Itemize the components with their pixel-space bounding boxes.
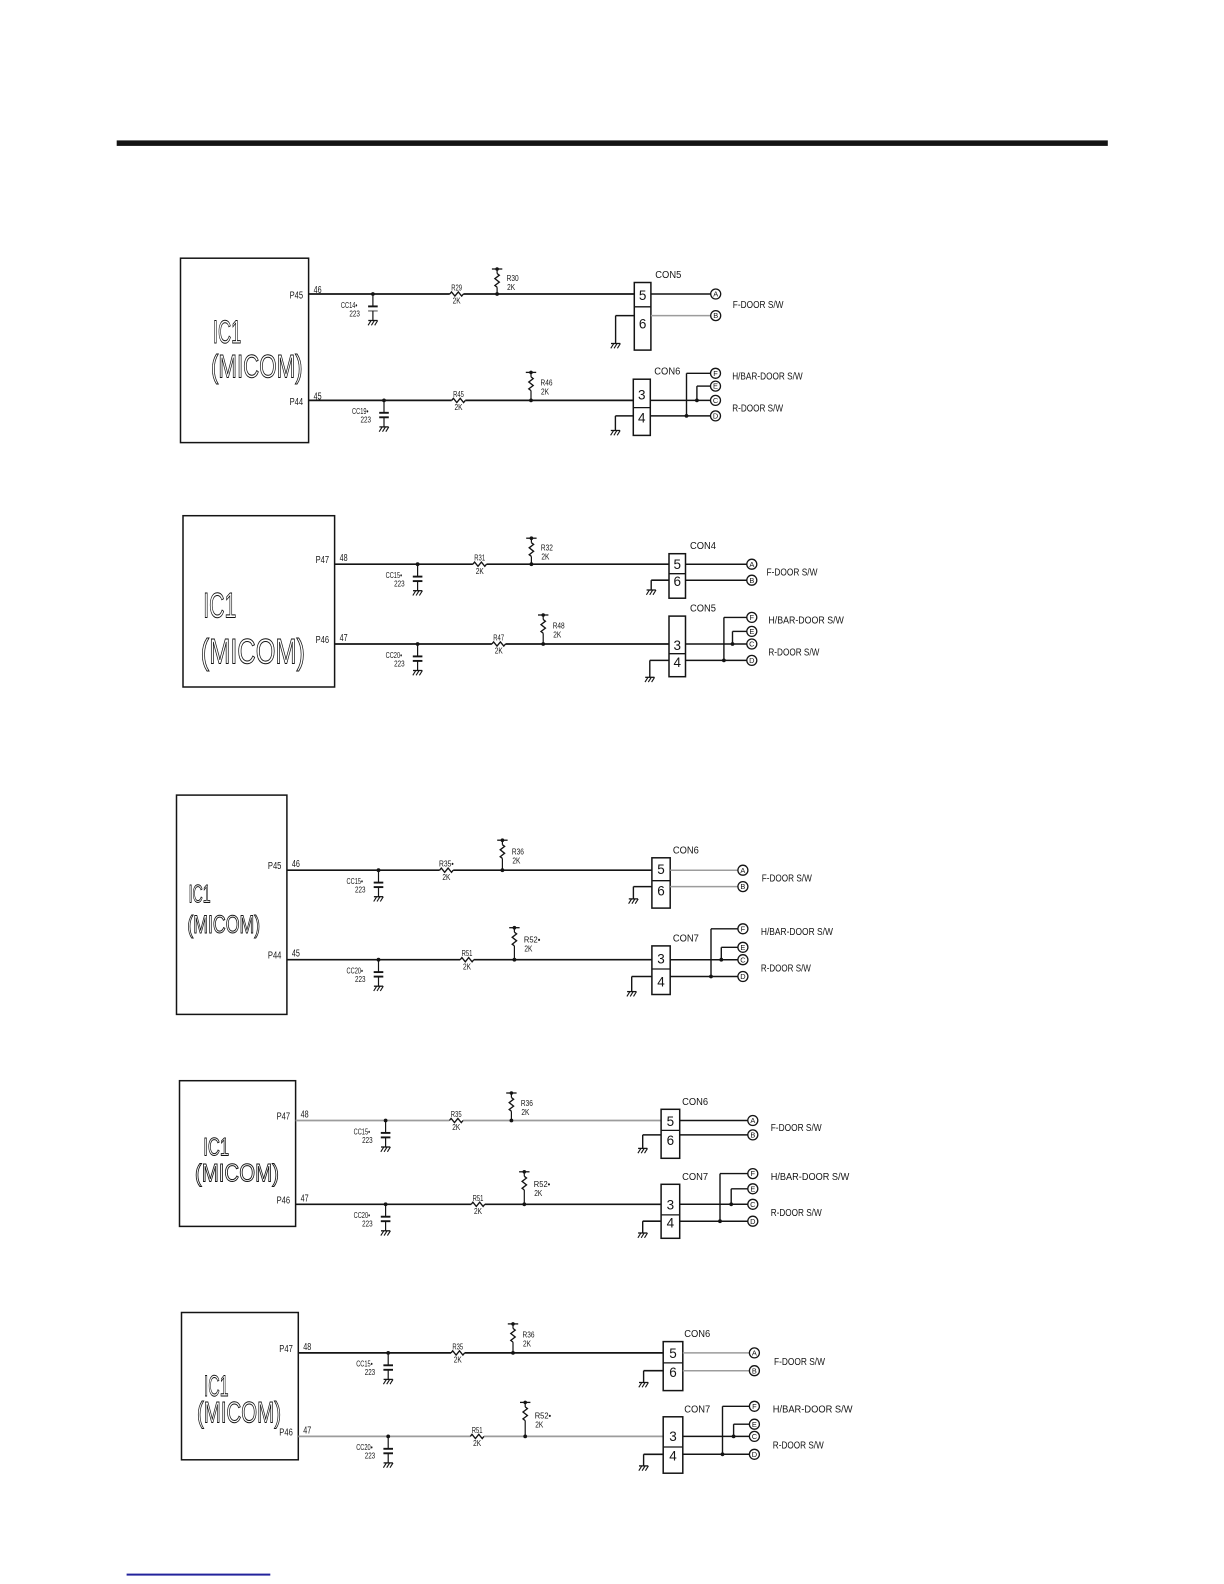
wire CON7 pin 3 to terminal C bbox=[680, 1203, 748, 1205]
junction bbox=[384, 1119, 388, 1123]
svg-text:R35: R35 bbox=[452, 1341, 463, 1351]
resistor R48 bbox=[538, 613, 565, 644]
wire terminal E to pin 3 net bbox=[721, 947, 738, 959]
junction bbox=[495, 292, 499, 296]
svg-text:E: E bbox=[749, 627, 754, 636]
wire connector to ground bbox=[615, 416, 633, 431]
svg-text:48: 48 bbox=[301, 1110, 309, 1121]
wire connector to ground bbox=[616, 316, 635, 344]
svg-text:2K: 2K bbox=[507, 282, 515, 292]
terminal F bbox=[747, 612, 757, 622]
IC IC1 (MICOM) block 4 box bbox=[180, 1081, 296, 1227]
junction bbox=[721, 1452, 725, 1456]
svg-text:223: 223 bbox=[365, 1367, 376, 1377]
svg-text:P45: P45 bbox=[290, 291, 304, 302]
svg-text:D: D bbox=[749, 656, 754, 665]
svg-text:R47: R47 bbox=[493, 633, 504, 643]
wire P46 to CON7 pin 3 bbox=[298, 1435, 663, 1437]
ground bbox=[413, 671, 423, 676]
terminal C bbox=[749, 1431, 759, 1441]
ground bbox=[639, 1383, 649, 1388]
terminal D bbox=[738, 972, 748, 982]
svg-text:6: 6 bbox=[669, 1365, 677, 1380]
svg-text:2K: 2K bbox=[523, 1339, 531, 1349]
wire P47 to CON6 pin 5 bbox=[298, 1352, 663, 1354]
svg-text:3: 3 bbox=[638, 387, 646, 402]
junction bbox=[530, 562, 534, 566]
svg-text:CON6: CON6 bbox=[682, 1097, 709, 1108]
svg-text:6: 6 bbox=[657, 883, 665, 898]
capacitor CC15 bbox=[354, 1121, 391, 1147]
junction bbox=[695, 399, 699, 403]
resistor R35 bbox=[451, 1341, 465, 1364]
svg-text:223: 223 bbox=[394, 658, 405, 668]
svg-text:223: 223 bbox=[362, 1219, 373, 1229]
ground bbox=[383, 1379, 393, 1384]
svg-text:4: 4 bbox=[669, 1448, 677, 1463]
wire CON5 pin 6 to terminal B bbox=[651, 315, 711, 317]
svg-text:CON7: CON7 bbox=[684, 1404, 710, 1415]
resistor R45 bbox=[452, 389, 466, 412]
terminal B bbox=[738, 882, 748, 892]
wire connector to ground bbox=[633, 887, 652, 899]
capacitor CC20 bbox=[347, 960, 384, 986]
junction bbox=[523, 1435, 527, 1439]
junction bbox=[731, 642, 735, 646]
ground bbox=[638, 1233, 648, 1238]
connector CON6 bbox=[661, 1097, 709, 1159]
svg-text:2K: 2K bbox=[455, 402, 463, 412]
svg-text:CON4: CON4 bbox=[690, 541, 717, 552]
svg-text:P44: P44 bbox=[290, 397, 304, 408]
wire connector to ground bbox=[650, 660, 669, 677]
wire CON7 pin 4 to terminal D bbox=[670, 976, 738, 978]
svg-text:48: 48 bbox=[303, 1342, 311, 1353]
resistor R51 bbox=[471, 1193, 485, 1216]
junction bbox=[386, 1435, 390, 1439]
junction bbox=[510, 1119, 514, 1123]
ground bbox=[381, 1147, 391, 1152]
junction bbox=[386, 1351, 390, 1355]
resistor R47 bbox=[492, 633, 506, 656]
svg-text:47: 47 bbox=[303, 1425, 311, 1436]
svg-text:2K: 2K bbox=[442, 872, 450, 882]
connector CON7 bbox=[652, 933, 699, 994]
svg-text:F: F bbox=[741, 924, 746, 933]
svg-text:223: 223 bbox=[355, 974, 366, 984]
svg-text:5: 5 bbox=[639, 288, 647, 303]
wire CON5 pin 5 to terminal A bbox=[651, 293, 711, 295]
wire connector to ground bbox=[643, 1221, 661, 1233]
wire CON6 pin 3 to terminal C bbox=[650, 399, 710, 401]
svg-text:R-DOOR S/W: R-DOOR S/W bbox=[732, 403, 784, 414]
svg-text:2K: 2K bbox=[474, 1206, 482, 1216]
svg-text:2K: 2K bbox=[473, 1438, 481, 1448]
resistor R36 bbox=[497, 838, 524, 870]
svg-text:R-DOOR S/W: R-DOOR S/W bbox=[773, 1441, 825, 1452]
ground bbox=[383, 1463, 393, 1468]
svg-text:F-DOOR S/W: F-DOOR S/W bbox=[767, 567, 819, 578]
svg-text:E: E bbox=[752, 1420, 757, 1429]
capacitor CC15 bbox=[347, 870, 384, 896]
capacitor CC20 bbox=[354, 1204, 391, 1230]
svg-text:R51: R51 bbox=[473, 1193, 484, 1203]
svg-text:2K: 2K bbox=[521, 1107, 529, 1117]
junction bbox=[377, 958, 381, 962]
IC IC1 (MICOM) block 3 box bbox=[177, 795, 287, 1014]
wire P46 to CON5 pin 3 bbox=[335, 643, 669, 645]
svg-text:A: A bbox=[749, 560, 754, 569]
svg-text:C: C bbox=[749, 640, 755, 649]
svg-text:3: 3 bbox=[667, 1197, 675, 1212]
svg-text:P46: P46 bbox=[316, 635, 330, 646]
svg-text:223: 223 bbox=[349, 308, 360, 318]
svg-text:P47: P47 bbox=[277, 1112, 291, 1123]
wire connector to ground bbox=[632, 977, 652, 992]
svg-text:F-DOOR S/W: F-DOOR S/W bbox=[762, 874, 813, 885]
terminal B bbox=[711, 311, 721, 321]
svg-text:C: C bbox=[752, 1432, 758, 1441]
svg-text:2K: 2K bbox=[452, 1122, 460, 1132]
svg-text:F-DOOR S/W: F-DOOR S/W bbox=[774, 1357, 826, 1368]
terminal E bbox=[738, 942, 748, 952]
svg-text:5: 5 bbox=[667, 1114, 675, 1129]
svg-text:2K: 2K bbox=[541, 387, 549, 397]
svg-text:6: 6 bbox=[639, 316, 647, 331]
svg-text:F-DOOR S/W: F-DOOR S/W bbox=[733, 300, 784, 311]
terminal E bbox=[711, 381, 721, 391]
svg-text:P47: P47 bbox=[279, 1344, 293, 1355]
svg-text:H/BAR-DOOR S/W: H/BAR-DOOR S/W bbox=[761, 927, 834, 938]
capacitor CC20 bbox=[356, 1436, 393, 1462]
wire CON6 pin 4 to terminal D bbox=[650, 415, 710, 417]
svg-text:P46: P46 bbox=[279, 1427, 293, 1438]
connector CON5 bbox=[669, 604, 717, 677]
svg-text:R35•: R35• bbox=[439, 859, 454, 869]
ground bbox=[413, 591, 423, 596]
svg-text:B: B bbox=[740, 882, 745, 891]
svg-text:223: 223 bbox=[361, 415, 372, 425]
resistor R51 bbox=[460, 948, 474, 971]
ground bbox=[638, 1148, 648, 1153]
svg-text:A: A bbox=[752, 1349, 757, 1358]
svg-text:CON7: CON7 bbox=[682, 1172, 708, 1183]
svg-text:R31: R31 bbox=[474, 553, 485, 563]
terminal E bbox=[748, 1184, 758, 1194]
terminal A bbox=[738, 865, 748, 875]
svg-text:H/BAR-DOOR S/W: H/BAR-DOOR S/W bbox=[768, 616, 844, 627]
svg-text:A: A bbox=[713, 290, 718, 299]
resistor R31 bbox=[473, 553, 487, 576]
svg-text:F: F bbox=[752, 1402, 757, 1411]
ground bbox=[374, 986, 384, 991]
wire CON4 pin 5 to terminal A bbox=[686, 563, 747, 565]
svg-text:CON6: CON6 bbox=[673, 845, 700, 856]
junction bbox=[541, 642, 545, 646]
svg-text:A: A bbox=[750, 1116, 755, 1125]
svg-text:CON7: CON7 bbox=[673, 933, 699, 944]
svg-text:2K: 2K bbox=[535, 1419, 543, 1429]
wire terminal F to pin 4 net bbox=[711, 929, 738, 977]
IC IC1 (MICOM) block 2 box bbox=[183, 516, 335, 687]
svg-text:C: C bbox=[740, 955, 746, 964]
svg-text:R51: R51 bbox=[462, 948, 473, 958]
svg-text:B: B bbox=[752, 1366, 757, 1375]
terminal C bbox=[748, 1199, 758, 1209]
junction bbox=[522, 1202, 526, 1206]
IC IC1 (MICOM) block 1 box bbox=[181, 258, 309, 442]
svg-text:A: A bbox=[740, 866, 745, 875]
junction bbox=[382, 399, 386, 403]
resistor R29 bbox=[450, 283, 464, 306]
svg-text:223: 223 bbox=[362, 1135, 373, 1145]
svg-text:B: B bbox=[749, 576, 754, 585]
svg-text:R35: R35 bbox=[451, 1109, 462, 1119]
junction bbox=[722, 659, 726, 663]
svg-text:F: F bbox=[750, 613, 755, 622]
wire connector to ground bbox=[644, 1371, 664, 1383]
wire terminal E to pin 3 net bbox=[734, 1424, 750, 1436]
junction bbox=[685, 414, 689, 418]
svg-text:E: E bbox=[750, 1184, 755, 1193]
junction bbox=[718, 1219, 722, 1223]
svg-text:2K: 2K bbox=[476, 566, 484, 576]
resistor R35 bbox=[439, 859, 454, 882]
svg-text:R-DOOR S/W: R-DOOR S/W bbox=[761, 963, 812, 974]
wire P44 to CON6 pin 3 bbox=[309, 399, 634, 401]
terminal E bbox=[749, 1419, 759, 1429]
wire CON7 pin 3 to terminal C bbox=[683, 1435, 750, 1437]
svg-text:IC1: IC1 bbox=[203, 1133, 229, 1161]
svg-text:3: 3 bbox=[657, 951, 665, 966]
svg-text:2K: 2K bbox=[463, 961, 471, 971]
svg-text:47: 47 bbox=[301, 1193, 309, 1204]
header rule bbox=[117, 140, 1108, 146]
wire CON6 pin 6 to terminal B bbox=[680, 1134, 748, 1136]
resistor R30 bbox=[492, 267, 519, 294]
resistor R46 bbox=[526, 371, 553, 401]
wire CON5 pin 4 to terminal D bbox=[686, 659, 747, 661]
resistor R36 bbox=[506, 1091, 533, 1120]
ground bbox=[629, 899, 639, 904]
terminal D bbox=[747, 655, 757, 665]
svg-text:IC1: IC1 bbox=[189, 881, 211, 909]
ground bbox=[368, 321, 378, 326]
ground bbox=[645, 677, 655, 682]
wire CON6 pin 6 to terminal B bbox=[683, 1370, 750, 1372]
svg-text:2K: 2K bbox=[534, 1188, 542, 1198]
svg-text:R51: R51 bbox=[472, 1425, 483, 1435]
terminal C bbox=[711, 395, 721, 405]
svg-text:48: 48 bbox=[340, 553, 348, 564]
junction bbox=[371, 292, 375, 296]
junction bbox=[416, 642, 420, 646]
svg-text:CON6: CON6 bbox=[684, 1329, 711, 1340]
wire terminal F to pin 4 net bbox=[720, 1174, 748, 1222]
wire CON6 pin 5 to terminal A bbox=[683, 1352, 750, 1354]
ground bbox=[646, 590, 656, 595]
svg-text:F: F bbox=[713, 369, 718, 378]
capacitor CC15 bbox=[386, 564, 423, 590]
resistor R51 bbox=[470, 1425, 484, 1448]
svg-text:47: 47 bbox=[340, 633, 348, 644]
wire P46 to CON7 pin 3 bbox=[296, 1203, 661, 1205]
resistor R32 bbox=[526, 536, 553, 564]
svg-text:IC1: IC1 bbox=[213, 314, 241, 350]
svg-text:2K: 2K bbox=[541, 551, 549, 561]
junction bbox=[529, 399, 533, 403]
svg-text:(MICOM): (MICOM) bbox=[201, 633, 305, 672]
resistor R36 bbox=[508, 1322, 535, 1353]
wire terminal F to pin 4 net bbox=[724, 617, 747, 660]
connector CON6 bbox=[652, 845, 700, 908]
svg-text:223: 223 bbox=[394, 579, 405, 589]
terminal B bbox=[748, 1130, 758, 1140]
ground bbox=[611, 431, 621, 436]
terminal E bbox=[747, 626, 757, 636]
svg-text:(MICOM): (MICOM) bbox=[187, 911, 260, 939]
svg-text:3: 3 bbox=[673, 638, 681, 653]
wire CON7 pin 3 to terminal C bbox=[670, 959, 738, 961]
footer link rule bbox=[127, 1574, 271, 1576]
svg-text:P47: P47 bbox=[316, 555, 330, 566]
wire CON6 pin 5 to terminal A bbox=[680, 1120, 748, 1122]
junction bbox=[729, 1202, 733, 1206]
wire CON6 pin 6 to terminal B bbox=[670, 886, 738, 888]
svg-text:CON6: CON6 bbox=[654, 367, 681, 378]
svg-text:R-DOOR S/W: R-DOOR S/W bbox=[771, 1208, 823, 1219]
junction bbox=[511, 1351, 515, 1355]
connector CON7 bbox=[663, 1404, 710, 1473]
ground bbox=[381, 1231, 391, 1236]
svg-text:3: 3 bbox=[669, 1429, 677, 1444]
svg-text:F: F bbox=[751, 1169, 756, 1178]
svg-text:P46: P46 bbox=[277, 1195, 291, 1206]
ground bbox=[374, 897, 384, 902]
svg-text:H/BAR-DOOR S/W: H/BAR-DOOR S/W bbox=[732, 372, 803, 383]
svg-text:F-DOOR S/W: F-DOOR S/W bbox=[771, 1123, 823, 1134]
terminal F bbox=[748, 1169, 758, 1179]
svg-text:C: C bbox=[750, 1200, 756, 1209]
svg-text:C: C bbox=[713, 396, 719, 405]
terminal C bbox=[747, 639, 757, 649]
svg-text:5: 5 bbox=[673, 557, 681, 572]
terminal D bbox=[711, 411, 721, 421]
capacitor CC14 bbox=[341, 294, 378, 320]
wire terminal E to pin 3 net bbox=[731, 1189, 748, 1205]
svg-text:5: 5 bbox=[669, 1346, 677, 1361]
wire P47 to CON6 pin 5 bbox=[296, 1120, 661, 1122]
svg-text:2K: 2K bbox=[453, 296, 461, 306]
terminal B bbox=[747, 575, 757, 585]
ground bbox=[639, 1466, 649, 1471]
svg-text:6: 6 bbox=[673, 574, 681, 589]
wire CON5 pin 3 to terminal C bbox=[686, 643, 747, 645]
svg-text:2K: 2K bbox=[553, 630, 561, 640]
terminal C bbox=[738, 955, 748, 965]
wire CON7 pin 4 to terminal D bbox=[683, 1453, 750, 1455]
wire terminal E to pin 3 net bbox=[733, 631, 747, 644]
connector CON4 bbox=[669, 541, 717, 598]
capacitor CC15 bbox=[356, 1353, 393, 1379]
svg-text:H/BAR-DOOR S/W: H/BAR-DOOR S/W bbox=[773, 1405, 853, 1416]
ground bbox=[627, 992, 637, 997]
capacitor CC20 bbox=[386, 644, 423, 670]
svg-text:4: 4 bbox=[667, 1215, 675, 1230]
svg-text:5: 5 bbox=[657, 862, 665, 877]
svg-text:(MICOM): (MICOM) bbox=[195, 1159, 279, 1187]
svg-text:6: 6 bbox=[667, 1133, 675, 1148]
svg-text:P44: P44 bbox=[268, 951, 282, 962]
svg-text:IC1: IC1 bbox=[203, 587, 236, 626]
svg-text:R45: R45 bbox=[453, 389, 464, 399]
wire P47 to CON4 pin 5 bbox=[335, 563, 669, 565]
resistor R35 bbox=[449, 1109, 463, 1132]
svg-text:223: 223 bbox=[355, 885, 366, 895]
resistor R52 bbox=[520, 1401, 551, 1437]
svg-text:2K: 2K bbox=[454, 1355, 462, 1365]
wire connector to ground bbox=[651, 580, 669, 590]
svg-text:(MICOM): (MICOM) bbox=[211, 348, 303, 384]
svg-text:2K: 2K bbox=[524, 944, 532, 954]
terminal A bbox=[747, 559, 757, 569]
svg-text:CON5: CON5 bbox=[655, 270, 682, 281]
terminal F bbox=[749, 1401, 759, 1411]
svg-text:4: 4 bbox=[657, 974, 665, 989]
svg-text:D: D bbox=[713, 412, 718, 421]
terminal D bbox=[749, 1449, 759, 1459]
terminal A bbox=[749, 1348, 759, 1358]
junction bbox=[377, 868, 381, 872]
svg-text:R29: R29 bbox=[451, 283, 462, 293]
svg-text:46: 46 bbox=[292, 859, 300, 870]
wire terminal F to pin 4 net bbox=[723, 1406, 750, 1454]
wire P45 to CON6 pin 5 bbox=[287, 869, 652, 871]
connector CON5 bbox=[634, 270, 682, 350]
wire CON7 pin 4 to terminal D bbox=[680, 1220, 748, 1222]
wire terminal E to pin 3 net bbox=[697, 386, 711, 400]
wire connector to ground bbox=[644, 1454, 664, 1466]
resistor R52 bbox=[509, 926, 540, 960]
connector CON6 bbox=[663, 1329, 711, 1391]
terminal A bbox=[748, 1116, 758, 1126]
svg-text:D: D bbox=[752, 1450, 757, 1459]
junction bbox=[513, 958, 517, 962]
svg-text:R-DOOR S/W: R-DOOR S/W bbox=[768, 647, 820, 658]
svg-text:4: 4 bbox=[638, 410, 646, 425]
svg-text:4: 4 bbox=[673, 655, 681, 670]
wire P45 to CON5 pin 5 bbox=[309, 293, 635, 295]
resistor R52 bbox=[519, 1170, 550, 1204]
IC IC1 (MICOM) block 5 box bbox=[182, 1313, 299, 1460]
junction bbox=[384, 1202, 388, 1206]
svg-text:E: E bbox=[740, 943, 745, 952]
terminal B bbox=[749, 1366, 759, 1376]
wire terminal F to pin 4 net bbox=[687, 373, 711, 416]
svg-text:E: E bbox=[713, 382, 718, 391]
svg-text:D: D bbox=[750, 1217, 755, 1226]
junction bbox=[732, 1435, 736, 1439]
ground bbox=[379, 427, 389, 432]
svg-text:45: 45 bbox=[292, 949, 300, 960]
svg-text:B: B bbox=[750, 1131, 755, 1140]
svg-text:2K: 2K bbox=[512, 855, 520, 865]
svg-text:(MICOM): (MICOM) bbox=[197, 1397, 281, 1430]
connector CON7 bbox=[661, 1172, 708, 1239]
terminal D bbox=[748, 1216, 758, 1226]
svg-text:2K: 2K bbox=[495, 646, 503, 656]
junction bbox=[719, 958, 723, 962]
